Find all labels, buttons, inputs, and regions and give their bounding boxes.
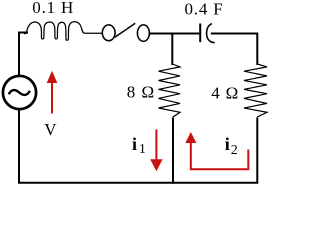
svg-text:i: i (225, 134, 230, 154)
svg-text:0.1 H: 0.1 H (32, 0, 74, 17)
svg-text:V: V (44, 120, 57, 139)
svg-text:1: 1 (139, 142, 146, 157)
svg-text:8 Ω: 8 Ω (127, 82, 155, 101)
svg-text:0.4 F: 0.4 F (185, 0, 224, 19)
svg-text:2: 2 (231, 143, 238, 158)
svg-text:4 Ω: 4 Ω (211, 83, 239, 102)
svg-text:i: i (132, 134, 137, 154)
